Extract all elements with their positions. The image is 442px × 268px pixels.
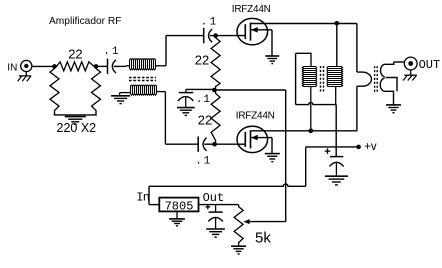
balun T3 secondary bbox=[380, 62, 397, 105]
label In for U2 bbox=[136, 190, 149, 204]
wire attenuator bottom bbox=[54, 113, 97, 115]
ground G1 attenuator bbox=[65, 117, 86, 125]
label .1 for C4 bbox=[195, 156, 210, 168]
label .1 for C2 bbox=[201, 16, 217, 28]
label 22 for R1 bbox=[68, 47, 82, 62]
title text 'Amplificador RF' bbox=[49, 16, 121, 27]
wire bias node to wiper column bbox=[214, 90, 285, 222]
capacitor C6 electrolytic +v bbox=[330, 157, 344, 177]
svg-text:IN: IN bbox=[7, 62, 17, 73]
wire bias node to C3 bbox=[186, 89, 215, 92]
plus sign C5 bbox=[205, 205, 210, 210]
wire T1 sec to C4 bbox=[165, 143, 198, 145]
label .1 for C3 bbox=[196, 94, 211, 106]
label +v bbox=[364, 141, 377, 153]
plus sign C6 bbox=[325, 148, 331, 154]
T1 secondary left lead to ground bbox=[120, 93, 131, 96]
wire U2 out to pot bbox=[199, 204, 239, 206]
svg-text:22: 22 bbox=[195, 52, 209, 67]
resistor R2 220 (left shunt) bbox=[50, 66, 59, 112]
label 22 for R4 bbox=[195, 52, 209, 67]
label IRFZ44N for Q2 bbox=[236, 111, 275, 122]
connector J2 OUT bbox=[404, 57, 417, 70]
ground G3 at C3 bbox=[177, 108, 195, 116]
svg-text:1: 1 bbox=[204, 156, 211, 168]
capacitor C1 .1 input bbox=[96, 59, 126, 74]
resistor R3 220 (right shunt) bbox=[92, 66, 101, 112]
resistor R4 22 (upper gate) bbox=[211, 36, 220, 89]
wire to C2 bbox=[166, 35, 204, 37]
wire junction F down to choke bbox=[336, 24, 338, 67]
svg-text:Out: Out bbox=[203, 191, 225, 205]
label 7805 bbox=[165, 200, 194, 214]
node D bias junction bbox=[212, 88, 217, 93]
ground G9 at C5 bbox=[206, 229, 225, 237]
R6 wiper arrow bbox=[243, 219, 285, 224]
choke T2 left winding bbox=[302, 67, 316, 87]
svg-text:IRFZ44N: IRFZ44N bbox=[232, 4, 271, 15]
node A junction bbox=[52, 64, 57, 69]
ground G4 at Q1 source bbox=[265, 56, 279, 64]
wire IN to node A bbox=[32, 65, 55, 67]
T2 right winding bottom lead bbox=[335, 87, 337, 105]
node E junction Q2 gate bbox=[212, 142, 217, 147]
svg-text:In: In bbox=[136, 190, 149, 204]
Q1 source arrow bbox=[251, 27, 273, 33]
capacitor C5 electrolytic 5V bbox=[208, 205, 223, 229]
Q1 drain tap bbox=[251, 23, 267, 25]
wire +v feed bbox=[149, 147, 359, 205]
label IN bbox=[7, 62, 17, 73]
chassis ground at OUT bbox=[403, 70, 417, 81]
node G junction bottom rail bbox=[309, 129, 314, 134]
svg-text:1: 1 bbox=[203, 94, 210, 106]
label 5k bbox=[255, 230, 271, 247]
svg-text:.: . bbox=[196, 94, 203, 106]
svg-text:1: 1 bbox=[112, 46, 119, 58]
connector J1 IN (BNC jack) bbox=[21, 60, 32, 71]
wire T3 to OUT bbox=[394, 61, 405, 63]
label .1 for C1 bbox=[103, 46, 119, 58]
svg-text:.: . bbox=[201, 16, 208, 28]
wire top rail Q1 drain bbox=[267, 23, 357, 25]
node C junction Q1 gate bbox=[213, 33, 218, 38]
svg-text:1: 1 bbox=[210, 16, 217, 28]
transistor Q2 IRFZ44N bbox=[237, 126, 268, 152]
Q2 drain tap bbox=[251, 130, 267, 132]
Q2 source lead down bbox=[271, 138, 273, 154]
svg-text:5k: 5k bbox=[255, 230, 271, 247]
choke T2 right winding bbox=[327, 67, 343, 87]
resistor R5 22 (lower gate) bbox=[211, 92, 220, 143]
label 22 for R5 bbox=[198, 113, 212, 128]
label Out for U2 bbox=[203, 191, 225, 205]
transistor Q1 IRFZ44N bbox=[237, 18, 268, 44]
T1 secondary right lead down bbox=[157, 92, 166, 145]
T2 core dashes bbox=[321, 66, 324, 93]
transformer T1 primary winding bbox=[126, 59, 157, 70]
ground G10 at R6 bbox=[231, 246, 246, 254]
chassis ground at IN bbox=[18, 72, 32, 82]
capacitor C2 .1 gate Q1 bbox=[204, 28, 216, 43]
node F junction top rail bbox=[335, 21, 340, 26]
svg-text:22: 22 bbox=[198, 113, 212, 128]
wire C4 junction to Q2 gate bbox=[215, 143, 246, 145]
node B junction bbox=[94, 64, 99, 69]
Q2 source arrow bbox=[251, 135, 273, 141]
capacitor C4 .1 gate Q2 bbox=[198, 137, 214, 152]
resistor R1 22 (series) bbox=[55, 62, 97, 71]
potentiometer R6 5k body bbox=[234, 205, 243, 245]
R6 bottom lead bbox=[238, 245, 240, 247]
Q1 source lead down bbox=[271, 30, 273, 56]
T1 core dashes bbox=[129, 78, 156, 81]
ground G5 at Q2 source bbox=[265, 154, 280, 162]
svg-text:220 X2: 220 X2 bbox=[57, 121, 97, 135]
T2 left winding bottom lead bbox=[310, 87, 312, 131]
label IRFZ44N for Q1 bbox=[232, 4, 271, 15]
transformer T1 secondary winding bbox=[131, 85, 157, 95]
node +v terminal dot bbox=[356, 145, 361, 150]
svg-text:.: . bbox=[195, 156, 202, 168]
label OUT bbox=[419, 58, 441, 72]
label 220 X2 bbox=[57, 121, 97, 135]
svg-text:7805: 7805 bbox=[165, 200, 194, 214]
capacitor C3 .1 bypass bbox=[178, 93, 194, 108]
T2 left winding top lead and CT bracket bbox=[296, 53, 337, 104]
svg-text:+v: +v bbox=[364, 141, 377, 153]
svg-text:IRFZ44N: IRFZ44N bbox=[236, 111, 275, 122]
ground G2 at T1 secondary bbox=[111, 96, 130, 104]
T1 primary right lead up bbox=[156, 36, 167, 66]
wire bottom rail Q2 drain bbox=[267, 130, 357, 132]
balun T3 primary bbox=[357, 24, 372, 131]
svg-text:22: 22 bbox=[68, 47, 82, 62]
svg-text:Amplificador RF: Amplificador RF bbox=[49, 16, 121, 27]
U2 ground lead bbox=[176, 211, 178, 219]
wire C2 junction to Q1 gate bbox=[216, 35, 246, 37]
T3 core dashes bbox=[375, 66, 378, 92]
ground G7 at C6 bbox=[325, 176, 348, 185]
svg-text:OUT: OUT bbox=[419, 58, 441, 72]
svg-text:.: . bbox=[103, 46, 110, 58]
regulator U2 7805 box bbox=[159, 198, 198, 212]
ground G6 at T3 secondary bbox=[386, 105, 401, 113]
ground G8 at U2 bbox=[169, 219, 185, 226]
wire CT down to +v line bbox=[335, 105, 337, 157]
